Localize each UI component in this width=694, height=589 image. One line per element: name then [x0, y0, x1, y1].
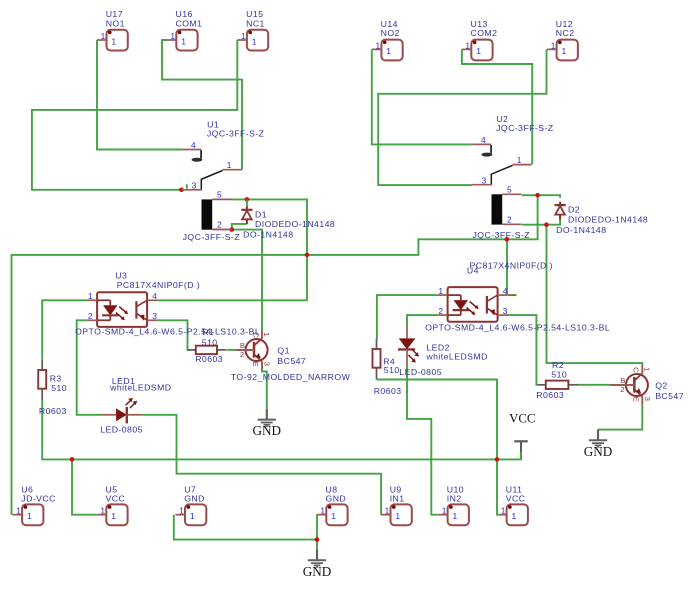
svg-text:JQC-3FF-S-Z: JQC-3FF-S-Z	[207, 129, 265, 139]
svg-text:3: 3	[503, 306, 508, 316]
svg-text:GND: GND	[326, 494, 347, 504]
svg-text:E: E	[251, 362, 260, 367]
svg-text:1: 1	[16, 506, 21, 516]
svg-text:1: 1	[227, 160, 232, 170]
svg-text:1: 1	[331, 511, 336, 521]
svg-text:510: 510	[384, 365, 400, 375]
svg-text:COM1: COM1	[176, 19, 203, 29]
svg-text:3: 3	[263, 362, 272, 366]
svg-text:U3: U3	[115, 270, 127, 280]
svg-text:3: 3	[482, 176, 487, 186]
svg-text:1: 1	[551, 40, 556, 50]
svg-text:PC817X4NIP0F(D ): PC817X4NIP0F(D )	[470, 261, 553, 271]
svg-text:1: 1	[27, 511, 32, 521]
svg-text:GND: GND	[303, 564, 332, 579]
svg-text:510: 510	[551, 369, 567, 379]
svg-text:510: 510	[51, 383, 67, 393]
svg-text:OPTO-SMD-4_L4.6-W6.5-P2.54-LS1: OPTO-SMD-4_L4.6-W6.5-P2.54-LS10.3-BL	[75, 326, 260, 336]
svg-text:whiteLEDSMD: whiteLEDSMD	[425, 351, 487, 361]
svg-text:JQC-3FF-S-Z: JQC-3FF-S-Z	[496, 123, 554, 133]
svg-text:2: 2	[217, 220, 222, 230]
svg-text:BC547: BC547	[277, 356, 306, 366]
svg-text:2: 2	[240, 350, 244, 359]
svg-text:IN2: IN2	[447, 494, 462, 504]
svg-text:VCC: VCC	[509, 412, 535, 426]
svg-text:D2: D2	[568, 205, 580, 215]
svg-text:DIODEDO-1N4148: DIODEDO-1N4148	[255, 219, 335, 229]
svg-text:B: B	[620, 376, 625, 385]
svg-text:3: 3	[192, 181, 197, 191]
svg-text:E: E	[631, 397, 640, 402]
svg-text:OPTO-SMD-4_L4.6-W6.5-P2.54-LS1: OPTO-SMD-4_L4.6-W6.5-P2.54-LS10.3-BL	[425, 323, 610, 333]
svg-text:510: 510	[202, 338, 218, 348]
svg-text:5: 5	[507, 185, 512, 195]
svg-text:VCC: VCC	[106, 494, 126, 504]
svg-text:R1: R1	[202, 327, 214, 337]
svg-text:1: 1	[512, 511, 517, 521]
svg-text:1: 1	[517, 155, 522, 165]
svg-text:1: 1	[385, 506, 390, 516]
svg-text:DIODEDO-1N4148: DIODEDO-1N4148	[568, 214, 648, 224]
svg-text:4: 4	[503, 286, 508, 296]
svg-text:1: 1	[179, 506, 184, 516]
svg-text:4: 4	[191, 140, 196, 150]
svg-text:2: 2	[438, 306, 443, 316]
svg-text:PC817X4NIP0F(D ): PC817X4NIP0F(D )	[117, 280, 200, 290]
svg-text:R0603: R0603	[374, 386, 402, 396]
svg-text:DO-1N4148: DO-1N4148	[243, 230, 293, 240]
svg-text:NC1: NC1	[246, 19, 265, 29]
svg-text:COM2: COM2	[471, 28, 498, 38]
svg-text:R0603: R0603	[195, 354, 223, 364]
svg-text:1: 1	[465, 40, 470, 50]
svg-text:Q2: Q2	[655, 381, 668, 391]
svg-text:NO2: NO2	[381, 28, 400, 38]
svg-text:1: 1	[442, 506, 447, 516]
svg-text:1: 1	[262, 332, 271, 336]
svg-text:1: 1	[181, 36, 186, 46]
svg-text:LED-0805: LED-0805	[399, 367, 442, 377]
svg-text:U4: U4	[467, 266, 479, 276]
svg-text:R0603: R0603	[39, 406, 67, 416]
svg-text:DO-1N4148: DO-1N4148	[556, 225, 606, 235]
svg-text:1: 1	[501, 506, 506, 516]
svg-text:JQC-3FF-S-Z: JQC-3FF-S-Z	[183, 232, 241, 242]
svg-text:C: C	[632, 367, 641, 373]
svg-text:D1: D1	[255, 209, 267, 219]
svg-text:1: 1	[111, 36, 116, 46]
svg-text:1: 1	[111, 511, 116, 521]
svg-text:NC2: NC2	[556, 28, 575, 38]
svg-text:2: 2	[507, 215, 512, 225]
svg-text:BC547: BC547	[655, 391, 684, 401]
svg-text:1: 1	[241, 31, 246, 41]
svg-text:GND: GND	[584, 444, 613, 459]
svg-text:2: 2	[88, 311, 93, 321]
svg-text:LED-0805: LED-0805	[100, 424, 143, 434]
svg-text:1: 1	[252, 36, 257, 46]
svg-text:1: 1	[100, 506, 105, 516]
svg-text:1: 1	[190, 511, 195, 521]
svg-text:B: B	[240, 341, 245, 350]
svg-text:5: 5	[217, 190, 222, 200]
svg-text:1: 1	[101, 31, 106, 41]
svg-text:1: 1	[453, 511, 458, 521]
svg-text:Q1: Q1	[277, 346, 290, 356]
svg-text:2: 2	[620, 385, 624, 394]
svg-text:3: 3	[643, 397, 652, 401]
svg-text:1: 1	[476, 46, 481, 56]
svg-text:whiteLEDSMD: whiteLEDSMD	[109, 383, 171, 393]
svg-text:1: 1	[320, 506, 325, 516]
svg-text:4: 4	[481, 135, 486, 145]
svg-text:IN1: IN1	[390, 494, 405, 504]
svg-text:1: 1	[88, 291, 93, 301]
svg-text:R0603: R0603	[536, 390, 564, 400]
svg-text:JD-VCC: JD-VCC	[21, 494, 56, 504]
svg-text:1: 1	[395, 511, 400, 521]
svg-text:1: 1	[376, 40, 381, 50]
svg-text:TO-92_MOLDED_NARROW: TO-92_MOLDED_NARROW	[231, 372, 351, 382]
svg-text:R3: R3	[50, 374, 62, 384]
svg-text:1: 1	[643, 367, 652, 371]
svg-text:1: 1	[386, 46, 391, 56]
svg-text:JQC-3FF-S-Z: JQC-3FF-S-Z	[473, 230, 531, 240]
svg-text:VCC: VCC	[506, 494, 526, 504]
svg-text:C: C	[251, 332, 260, 338]
svg-text:1: 1	[562, 46, 567, 56]
svg-text:1: 1	[438, 286, 443, 296]
svg-text:GND: GND	[253, 423, 282, 438]
svg-text:GND: GND	[184, 494, 205, 504]
svg-text:3: 3	[152, 311, 157, 321]
svg-text:NO1: NO1	[106, 19, 125, 29]
svg-text:1: 1	[170, 31, 175, 41]
svg-text:4: 4	[152, 291, 157, 301]
